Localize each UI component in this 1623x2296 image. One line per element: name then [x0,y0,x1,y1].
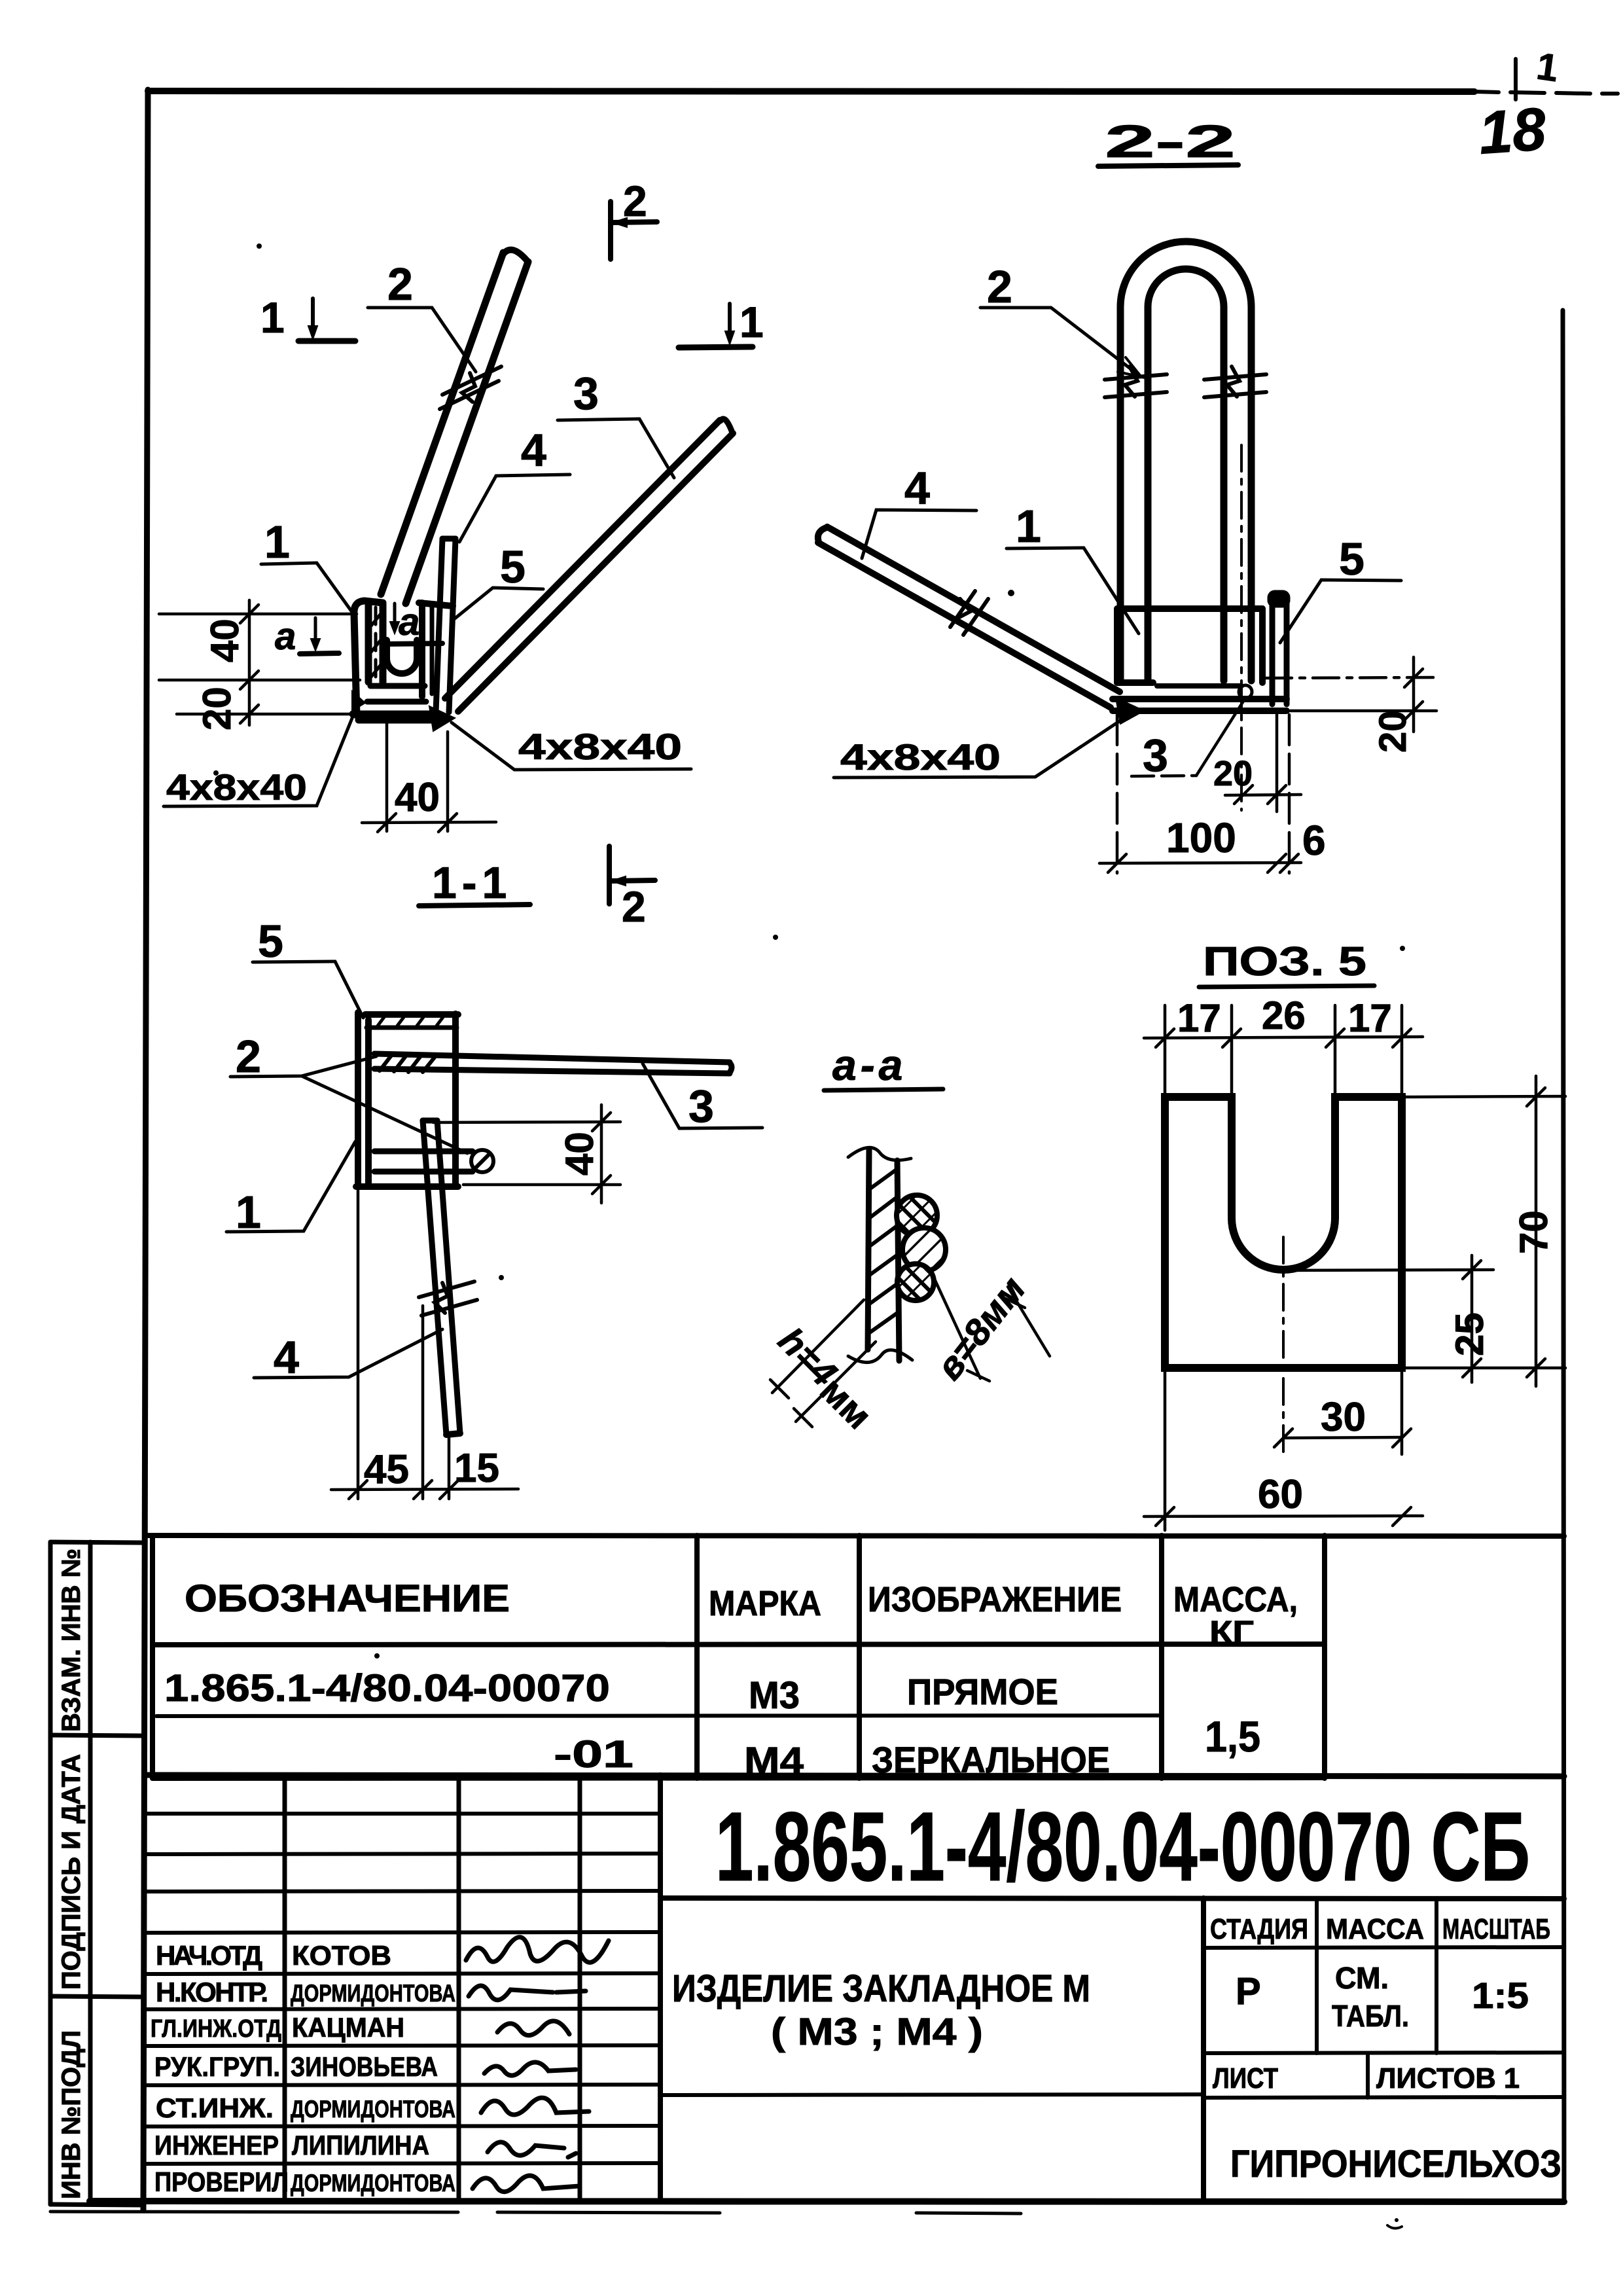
svg-text:1-1: 1-1 [432,858,512,908]
label 4 leader (2-2) [862,463,976,558]
svg-text:ИНВ №ПОДЛ: ИНВ №ПОДЛ [57,2030,86,2199]
svg-text:20: 20 [1372,710,1414,753]
svg-text:4х8х40: 4х8х40 [840,736,1001,778]
leader b=8mm (a-a) [933,1276,1050,1381]
svg-text:20: 20 [1213,754,1253,793]
label 4 leader [459,425,570,542]
rod 3 weld hatch (1-1) [380,1054,436,1072]
label 1 leader (1-1) [226,1141,355,1238]
svg-text:1: 1 [1016,501,1041,552]
svg-text:15: 15 [454,1446,499,1491]
rod 4 (1-1) [423,1121,460,1435]
svg-text:МАРКА: МАРКА [709,1584,821,1623]
rod 3 end circle [1239,685,1252,698]
svg-text:1.865.1-4/80.04-00070: 1.865.1-4/80.04-00070 [164,1667,610,1710]
label 3 leader (1-1) [643,1064,762,1132]
svg-text:1:5: 1:5 [1472,1975,1529,2016]
svg-text:2: 2 [387,259,413,310]
svg-text:ДОРМИДОНТОВА: ДОРМИДОНТОВА [291,1980,455,2007]
dim 40 bottom [362,723,496,832]
plate 5 (2-2, edge view) [1268,591,1289,704]
svg-text:1,5: 1,5 [1205,1712,1260,1761]
rod 3 (1-1, horizontal) [374,1054,732,1073]
section marker 1 left [260,293,355,342]
bracket part 1 channel outline [353,601,443,720]
plate section (a-a) [868,1149,899,1361]
sheet border left [143,90,148,2210]
svg-text:70: 70 [1512,1210,1556,1254]
svg-text:2: 2 [987,261,1012,312]
label 2 leader [368,259,476,372]
svg-text:40: 40 [558,1132,601,1175]
leg centerline [1240,445,1243,810]
svg-text:СТАДИЯ: СТАДИЯ [1210,1913,1308,1945]
plate hatch (a-a) [868,1169,899,1334]
svg-text:2-2: 2-2 [1105,116,1236,167]
rod 4 break marks [950,591,988,635]
svg-text:2: 2 [236,1031,261,1082]
dim 25 [1283,1255,1493,1382]
label 2 leader (1-1) [230,1031,467,1153]
label 5 leader [455,541,543,619]
svg-text:ПОЗ. 5: ПОЗ. 5 [1203,939,1366,984]
dim 20 (2-2 small) [1225,715,1301,812]
svg-text:3: 3 [688,1081,714,1132]
rod 4 (2-2, inclined) [818,527,1120,708]
weld seam (2-2) [1116,698,1144,724]
dim 40/20 left extension lines [159,600,360,725]
plate 1 (2-2) [1117,609,1262,686]
svg-text:45: 45 [364,1447,409,1492]
plate 1 + plate 5 (1-1) [356,1013,458,1187]
dim 60 [1144,1371,1423,1530]
svg-text:( М3 ; М4 ): ( М3 ; М4 ) [771,2011,983,2053]
slot centerline [1282,1237,1285,1454]
svg-text:4: 4 [904,463,930,514]
rod 2 strip hatch in bracket [369,612,382,679]
svg-text:2: 2 [622,882,646,931]
svg-text:НАЧ.ОТД: НАЧ.ОТД [156,1940,262,1971]
svg-text:РУК.ГРУП.: РУК.ГРУП. [154,2051,280,2082]
svg-text:40: 40 [395,775,440,820]
rod 3 (2-2, bottom bar) [1113,699,1287,711]
rod 4 break marks (1-1) [419,1282,477,1316]
svg-text:a: a [275,615,296,658]
loop leg break marks [1105,367,1266,397]
weld label 4x8x40 left [164,707,357,808]
weld seam right (4x8x40) [429,706,455,731]
label 1 leader (2-2) [1007,501,1139,634]
detail title a-a [824,1041,943,1090]
dim 40 (1-1) [433,1105,620,1203]
svg-text:ИЗДЕЛИЕ ЗАКЛАДНОЕ М: ИЗДЕЛИЕ ЗАКЛАДНОЕ М [672,1967,1090,2010]
label 5 leader (1-1) [253,916,363,1018]
view title 1-1 [419,858,530,908]
rod 2 (anchor loop leg, inclined) [381,250,528,603]
rod 2 hidden line in bracket [374,607,378,679]
signatures [466,1937,609,2192]
svg-text:5: 5 [1339,533,1364,584]
svg-text:ПРОВЕРИЛ: ПРОВЕРИЛ [154,2166,289,2197]
svg-text:ОБОЗНАЧЕНИЕ: ОБОЗНАЧЕНИЕ [185,1577,510,1620]
svg-text:ЗИНОВЬЕВА: ЗИНОВЬЕВА [291,2051,438,2082]
label 3 leader [558,368,674,478]
svg-text:18: 18 [1476,96,1548,167]
svg-text:26: 26 [1262,994,1306,1037]
svg-text:ВЗАМ. ИНВ №: ВЗАМ. ИНВ № [57,1549,86,1732]
detail title POS.5 [1199,939,1374,987]
svg-text:60: 60 [1258,1472,1303,1517]
svg-text:СТ.ИНЖ.: СТ.ИНЖ. [156,2092,274,2123]
scan speckles [213,243,1405,2229]
rod 4 (short stub rod) [436,539,455,712]
svg-text:1: 1 [264,516,290,567]
rod 2 break mark [440,367,501,409]
svg-text:1.865.1-4/80.04-00070 СБ: 1.865.1-4/80.04-00070 СБ [715,1791,1530,1901]
svg-text:ЛИСТ: ЛИСТ [1213,2062,1278,2094]
svg-text:3: 3 [573,368,599,419]
svg-text:МАССА: МАССА [1326,1913,1424,1945]
weld label 4x8x40 (2-2) [834,715,1128,778]
leader h=4mm (a-a) [770,1300,876,1427]
svg-text:4х8х40: 4х8х40 [518,726,682,767]
svg-text:ИЗОБРАЖЕНИЕ: ИЗОБРАЖЕНИЕ [868,1580,1122,1619]
svg-text:a: a [399,601,419,643]
svg-text:ТАБЛ.: ТАБЛ. [1332,1999,1409,2033]
staff column: names [291,1940,455,2197]
dim 100 (2-2) [1099,715,1301,873]
svg-text:Р: Р [1236,1970,1261,2013]
svg-text:30: 30 [1321,1395,1366,1440]
plate 5 outline [1165,1097,1402,1368]
svg-text:4: 4 [274,1332,299,1383]
plate 5 U-slot front [387,603,453,696]
dim 17/26/17 top [1144,1005,1423,1094]
svg-text:a-a: a-a [832,1041,906,1089]
svg-text:КГ: КГ [1209,1615,1254,1650]
staff column: positions [151,1940,289,2197]
label 1 leader [261,516,353,614]
svg-text:ДОРМИДОНТОВА: ДОРМИДОНТОВА [291,2170,455,2197]
svg-text:17: 17 [1348,996,1392,1040]
svg-text:ИНЖЕНЕР: ИНЖЕНЕР [154,2130,279,2161]
svg-text:МАССА,: МАССА, [1173,1580,1298,1619]
svg-text:КАЦМАН: КАЦМАН [292,2012,404,2043]
svg-text:5: 5 [500,541,526,592]
section marker 1 right [679,298,764,348]
svg-text:М3: М3 [749,1674,800,1717]
svg-text:ЛИСТОВ 1: ЛИСТОВ 1 [1376,2062,1520,2094]
svg-text:4х8х40: 4х8х40 [166,766,307,808]
page number 1 tick [1514,59,1518,99]
svg-text:40: 40 [203,619,247,662]
dim 20 right (2-2) [1266,657,1436,732]
svg-text:КОТОВ: КОТОВ [292,1940,391,1971]
svg-text:20: 20 [195,687,239,730]
svg-text:СМ.: СМ. [1335,1961,1389,1995]
dims 45 / 15 (1-1) [331,1189,518,1499]
svg-text:МАСШТАБ: МАСШТАБ [1442,1913,1550,1945]
svg-text:1: 1 [740,298,764,346]
plate top hatch (1-1) [376,1014,445,1028]
dim 30 [1274,1371,1411,1454]
weld bead circles (a-a) [897,1195,937,1236]
sheet border right [1563,310,1564,2200]
svg-text:-01: -01 [554,1733,633,1776]
svg-text:ДОРМИДОНТОВА: ДОРМИДОНТОВА [291,2096,455,2123]
table frame [146,1535,1564,1778]
svg-text:ГЛ.ИНЖ.ОТД: ГЛ.ИНЖ.ОТД [151,2015,281,2043]
sheet border top [148,91,1474,92]
rod 2 hook (1-1) with end circle [374,1151,473,1172]
svg-text:5: 5 [258,916,283,967]
svg-text:Н.КОНТР.: Н.КОНТР. [156,1977,268,2007]
svg-text:ПРЯМОЕ: ПРЯМОЕ [907,1671,1058,1712]
svg-text:6: 6 [1302,817,1326,864]
svg-text:ПОДПИСЬ И ДАТА: ПОДПИСЬ И ДАТА [57,1754,86,1990]
label 4 leader (1-1) [254,1329,442,1383]
svg-text:ЛИПИЛИНА: ЛИПИЛИНА [292,2130,429,2161]
weld label 4x8x40 right [452,723,691,770]
section marker 2 bottom [609,846,655,931]
rod 3 (inclined anchor rod) [445,419,733,711]
label 2 loop leader [980,261,1141,377]
label 3 leader (2-2) [1132,699,1245,781]
dim 70 right [1404,1076,1565,1386]
svg-text:100: 100 [1166,814,1236,861]
svg-text:3: 3 [1143,730,1168,781]
rod 2 U-loop [1120,242,1251,681]
view marker a right [385,601,442,644]
left stamp boxes [50,1542,141,2205]
svg-text:17: 17 [1177,996,1221,1040]
weld seam left (4x8x40) [352,691,365,711]
view marker a left [275,615,339,658]
svg-text:25: 25 [1448,1312,1491,1356]
svg-text:ГИПРОНИСЕЛЬХОЗ: ГИПРОНИСЕЛЬХОЗ [1230,2143,1561,2185]
section marker 2 top [611,177,657,259]
svg-text:4: 4 [521,425,546,476]
title block frame [50,1775,1564,2214]
label 5 leader (2-2) [1280,533,1401,643]
svg-text:1: 1 [260,293,285,342]
